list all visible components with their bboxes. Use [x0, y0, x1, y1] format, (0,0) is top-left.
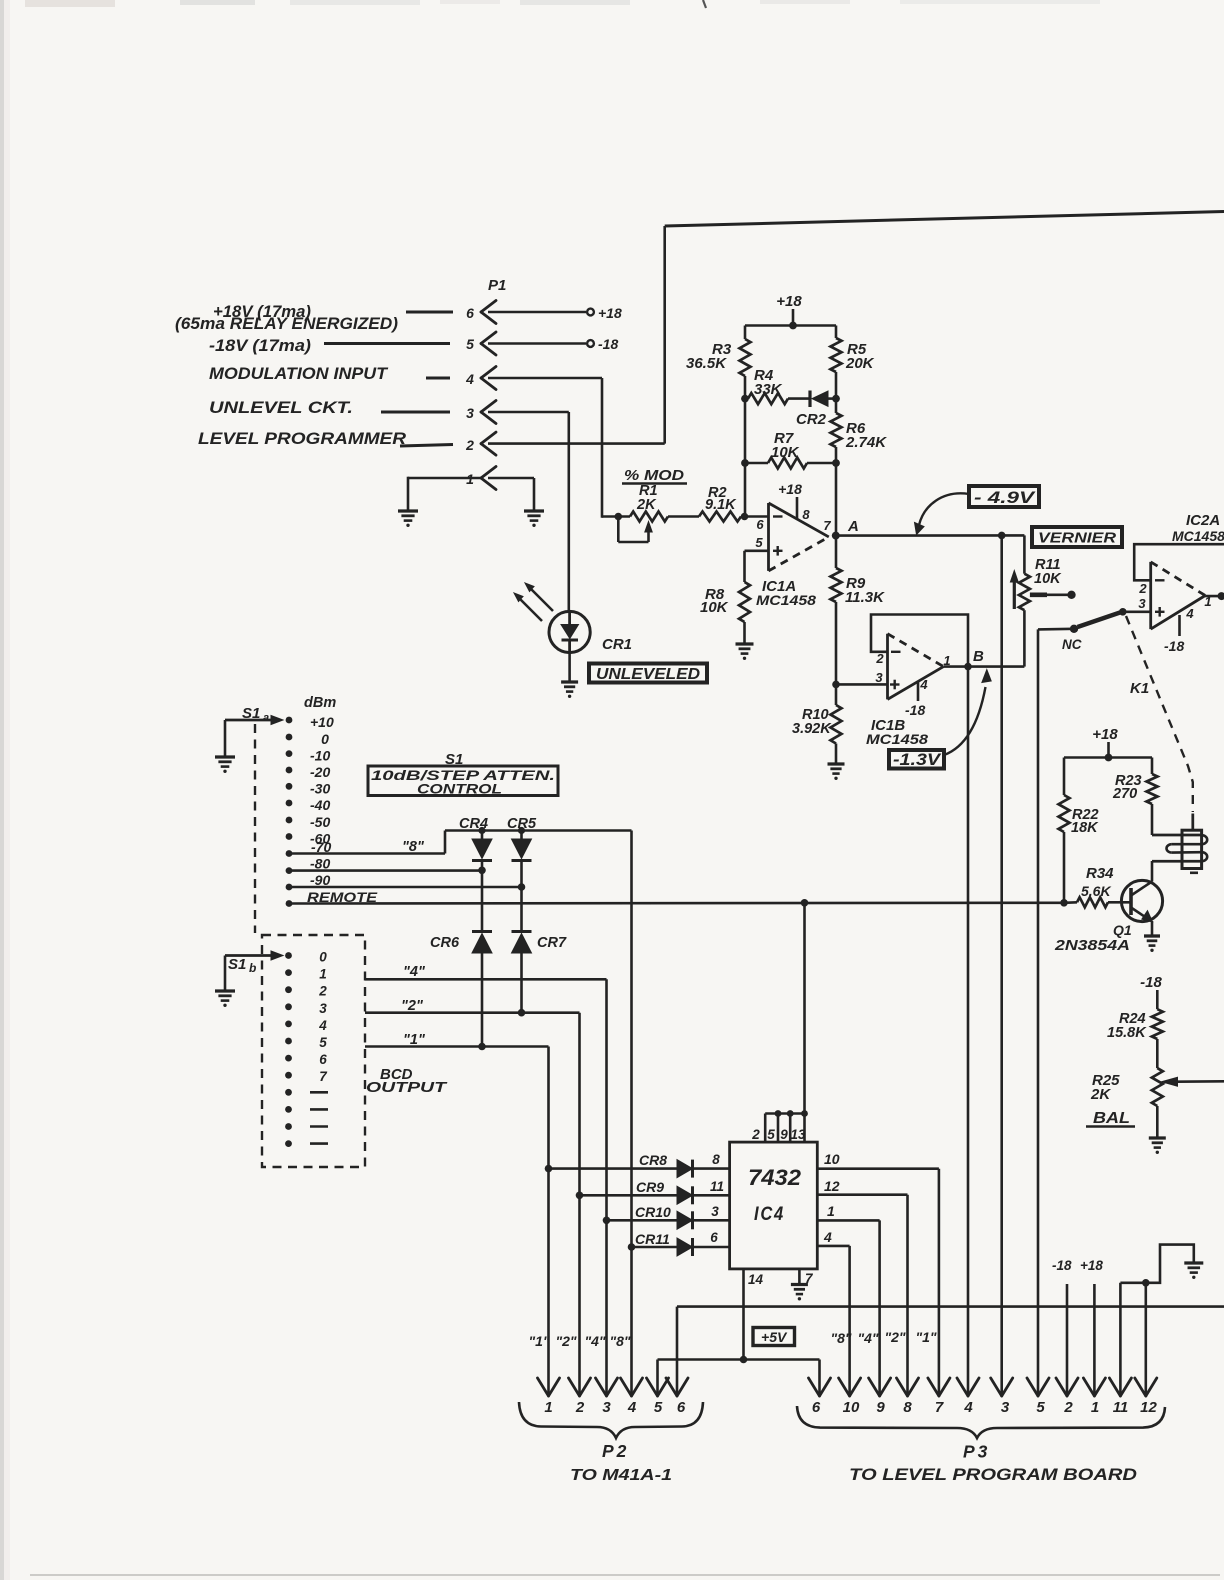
wire BCD "4" line [365, 964, 607, 1395]
wire IC1B feedback loop [871, 615, 968, 667]
svg-text:LEVEL PROGRAMMER: LEVEL PROGRAMMER [198, 430, 406, 448]
svg-text:7: 7 [319, 1069, 328, 1084]
svg-text:1: 1 [319, 967, 327, 982]
svg-text:CR10: CR10 [635, 1204, 671, 1220]
wire top rail to off-page right [665, 212, 1224, 227]
ground at Q1 [1144, 936, 1160, 952]
resistor R8 10K [700, 582, 750, 622]
wire node A to P3-3 [1000, 535, 1003, 1395]
wire -70 "8" line [289, 827, 632, 855]
callout box VERNIER [1032, 527, 1122, 547]
svg-text:15.8K: 15.8K [1107, 1025, 1147, 1041]
svg-text:-18: -18 [598, 336, 618, 352]
svg-text:4: 4 [465, 371, 474, 387]
svg-text:CR4: CR4 [459, 816, 488, 832]
svg-text:5: 5 [654, 1399, 663, 1416]
svg-text:CR1: CR1 [602, 636, 632, 653]
resistor R34 5.6K [1060, 865, 1114, 907]
svg-text:"4": "4" [584, 1333, 605, 1349]
switch S1b contacts BCD [285, 950, 328, 1148]
wire NC to P3-5 [1038, 629, 1074, 1395]
ground at S1b [215, 991, 235, 1007]
wire BCD "2" line [365, 998, 580, 1395]
svg-text:3: 3 [466, 405, 474, 421]
resistor R5 20K [831, 326, 875, 399]
svg-text:"8": "8" [609, 1333, 630, 1349]
svg-text:-10: -10 [310, 748, 330, 764]
relay K1 contact NC [1062, 613, 1120, 653]
svg-text:UNLEVEL CKT.: UNLEVEL CKT. [209, 399, 353, 417]
svg-text:3: 3 [1001, 1399, 1010, 1416]
wire IC2A + input junction [1119, 608, 1151, 616]
svg-text:20K: 20K [845, 355, 875, 372]
svg-text:"2": "2" [884, 1329, 905, 1345]
svg-text:6: 6 [812, 1399, 821, 1416]
svg-text:11: 11 [710, 1179, 724, 1194]
diode CR10 with input [603, 1204, 730, 1229]
wire IC4 pins rail to REMOTE line [801, 899, 809, 1114]
wire REMOTE line [289, 901, 1064, 904]
svg-text:"2": "2" [555, 1333, 576, 1349]
svg-text:MODULATION INPUT: MODULATION INPUT [209, 365, 389, 383]
ground at R25 [1149, 1138, 1166, 1154]
diode CR4 [459, 816, 492, 870]
diode CR6 [430, 932, 492, 1047]
svg-text:-50: -50 [310, 814, 330, 830]
svg-text:2K: 2K [1090, 1086, 1111, 1103]
svg-text:P1: P1 [488, 277, 506, 294]
svg-text:4: 4 [1185, 606, 1194, 621]
svg-text:% MOD: % MOD [624, 467, 684, 484]
ground at CR1 [561, 682, 578, 698]
wire P3-1 stub [1093, 1284, 1096, 1395]
wire BCD "8" vertical [630, 831, 633, 1396]
svg-text:-18: -18 [1052, 1258, 1072, 1273]
resistor R3 36.5K [686, 326, 751, 399]
node A junction [832, 518, 859, 540]
wire P1-4 to R1 [488, 378, 602, 518]
svg-text:10K: 10K [771, 444, 800, 461]
svg-text:IC4: IC4 [754, 1204, 785, 1225]
label % MOD [622, 467, 687, 484]
svg-text:2N3854A: 2N3854A [1054, 937, 1130, 954]
svg-text:+18: +18 [776, 293, 802, 310]
svg-text:+18: +18 [1080, 1258, 1103, 1273]
resistor R4 33K [741, 367, 809, 404]
svg-text:-18: -18 [1164, 638, 1184, 654]
wire CR4 to CR6 [481, 870, 484, 931]
wire relay driver +18 rail [1064, 754, 1152, 762]
wire IC4 output pin 10 to P3-7 [817, 1151, 939, 1395]
svg-text:8: 8 [712, 1152, 720, 1167]
diode CR2 [796, 391, 836, 429]
svg-text:11: 11 [1113, 1399, 1129, 1416]
svg-text:10: 10 [824, 1151, 840, 1167]
svg-text:CONTROL: CONTROL [417, 781, 502, 797]
svg-text:CR11: CR11 [635, 1231, 670, 1247]
op-amp IC1A MC1458 [755, 481, 831, 608]
wire IC2A output [1205, 592, 1224, 600]
relay K1 coil [1152, 814, 1207, 873]
svg-text:5: 5 [319, 1035, 327, 1050]
wire P1-3 to CR1 [488, 412, 569, 612]
svg-text:OUTPUT: OUTPUT [366, 1079, 448, 1096]
resistor R23 270 [1112, 758, 1158, 836]
svg-text:6: 6 [710, 1230, 718, 1245]
svg-text:CR7: CR7 [537, 935, 567, 951]
connector P1 pin 1 (ground) [408, 467, 534, 490]
resistor R9 11.3K [831, 536, 886, 685]
connector P2 brace [519, 1402, 703, 1438]
svg-text:a: a [263, 712, 269, 724]
label S1 10dB/STEP ATTEN. CONTROL box [368, 751, 558, 797]
svg-text:-90: -90 [310, 872, 330, 888]
svg-text:9: 9 [780, 1127, 788, 1142]
svg-text:CR8: CR8 [639, 1152, 667, 1168]
svg-text:+18: +18 [1092, 726, 1118, 743]
wire -80 line [289, 867, 486, 875]
callout box -4.9V with arrow [915, 486, 1040, 535]
-18 supply label (R24) [1140, 974, 1162, 1009]
ground at R10 [828, 764, 845, 780]
svg-text:3: 3 [711, 1204, 719, 1219]
wire P2-6 to off-page right [677, 1307, 1224, 1395]
ground at R8 [736, 644, 754, 660]
switch S1b wiper [225, 951, 283, 990]
wire CR5 to CR7 [520, 887, 523, 932]
labels "8" "4" "2" "1" above P3 [830, 1329, 936, 1346]
switch S1a contacts dBm [286, 714, 378, 907]
labels "1" "2" "4" "8" above P2 [528, 1333, 630, 1349]
wire R6/R7 right leg to node A [835, 463, 838, 536]
svg-text:18K: 18K [1071, 820, 1099, 836]
diode CR7 [512, 932, 567, 1013]
potentiometer R1 2K [602, 483, 668, 542]
wire pin1 right leg [533, 478, 536, 511]
ground at P1 pin 1 right [524, 511, 544, 527]
connector P3 pin numbers [812, 1399, 1158, 1416]
svg-text:A: A [847, 518, 859, 535]
wire IC1B + input [832, 681, 887, 689]
svg-text:3: 3 [602, 1399, 611, 1416]
connector P1 pin 2 (LEVEL PROGRAMMER) [198, 430, 496, 455]
connector P2 pin numbers [544, 1399, 686, 1416]
svg-text:12: 12 [824, 1178, 840, 1194]
svg-text:-80: -80 [310, 856, 330, 872]
svg-text:9: 9 [876, 1399, 885, 1416]
label BCD OUTPUT [366, 1066, 448, 1096]
svg-text:+10: +10 [310, 714, 334, 730]
svg-text:MC1458: MC1458 [756, 592, 816, 608]
ground at IC4 pin 7 [791, 1285, 808, 1301]
resistor R7 10K [741, 430, 840, 469]
svg-text:2: 2 [575, 1399, 585, 1416]
wire R8 to ground [743, 622, 746, 643]
svg-text:-1.3V: -1.3V [893, 751, 942, 769]
svg-text:-40: -40 [310, 797, 330, 813]
potentiometer R25 2K BAL [1090, 1039, 1224, 1137]
svg-text:10K: 10K [700, 599, 729, 616]
svg-text:NC: NC [1062, 637, 1082, 652]
svg-text:"1": "1" [528, 1333, 549, 1349]
svg-text:2: 2 [875, 651, 884, 666]
potentiometer R11 10K vernier [1010, 535, 1075, 666]
svg-text:P3: P3 [963, 1442, 990, 1462]
wire BCD "1" line [365, 1032, 549, 1395]
resistor R6 2.74K [831, 395, 888, 463]
svg-text:IC2A: IC2A [1186, 512, 1220, 529]
connector P1 pin 6 (+18V input) [175, 301, 622, 334]
label dBm [304, 695, 336, 711]
wire P3-2 stub [1066, 1284, 1069, 1395]
+18 supply label (R3/R5 rail) [776, 293, 802, 326]
label -18 +18 (P3 supplies) [1052, 1258, 1103, 1273]
svg-text:Q1: Q1 [1113, 922, 1132, 938]
connector P2 arrows [538, 1378, 689, 1396]
wire +5V rail [658, 1356, 820, 1395]
diode CR5 [507, 816, 537, 887]
svg-text:7: 7 [935, 1399, 944, 1416]
switch S1a wiper [225, 705, 283, 756]
wire P3-11 vertical [1119, 1283, 1122, 1395]
svg-text:6: 6 [677, 1399, 686, 1416]
svg-text:6: 6 [319, 1052, 327, 1067]
wire -90 line [289, 883, 525, 891]
svg-text:3: 3 [1138, 596, 1146, 611]
label CR1 [602, 636, 632, 653]
diode CR9 with input [576, 1179, 730, 1204]
resistor R10 3.92K [792, 684, 842, 743]
svg-text:1: 1 [1091, 1399, 1099, 1416]
svg-text:9.1K: 9.1K [705, 497, 737, 513]
svg-text:1: 1 [544, 1399, 552, 1416]
svg-text:4: 4 [823, 1229, 832, 1245]
svg-text:CR9: CR9 [636, 1179, 664, 1195]
svg-text:0: 0 [321, 731, 329, 747]
svg-text:S1: S1 [228, 956, 246, 973]
svg-text:5.6K: 5.6K [1081, 883, 1111, 899]
svg-text:+5V: +5V [761, 1329, 788, 1345]
diode CR11 with input [628, 1230, 730, 1256]
svg-text:UNLEVELED: UNLEVELED [596, 666, 700, 683]
svg-text:10: 10 [843, 1399, 860, 1416]
label TO LEVEL PROGRAM BOARD [849, 1466, 1137, 1484]
svg-text:-18: -18 [905, 702, 925, 718]
svg-text:1: 1 [466, 471, 474, 487]
connector P1 pin 4 (MODULATION INPUT) [209, 365, 496, 390]
svg-text:0: 0 [319, 950, 327, 965]
resistor R24 15.8K [1107, 1009, 1163, 1041]
wire Q1 emitter to ground [1151, 921, 1154, 935]
callout box UNLEVELED [589, 664, 707, 684]
svg-text:CR5: CR5 [507, 816, 537, 832]
svg-text:2: 2 [1138, 581, 1147, 596]
wire node A to R11 [836, 532, 1024, 540]
ground at S1a [215, 757, 235, 773]
wire IC1A pin5 to R8 [745, 551, 769, 582]
svg-text:MC1458: MC1458 [1172, 528, 1224, 544]
svg-text:5: 5 [1036, 1399, 1045, 1416]
wire P1-2 to top rail [488, 226, 665, 444]
op-amp IC2A MC1458 [1138, 512, 1224, 654]
svg-text:"1": "1" [915, 1329, 936, 1345]
transistor Q1 2N3854A [1054, 861, 1163, 954]
connector P3 brace [797, 1406, 1165, 1438]
svg-text:4: 4 [627, 1399, 637, 1416]
resistor R22 18K [1059, 758, 1100, 903]
svg-text:"8": "8" [402, 839, 425, 855]
svg-text:12: 12 [1140, 1399, 1157, 1416]
svg-text:2: 2 [1063, 1399, 1073, 1416]
svg-text:"8": "8" [830, 1330, 851, 1346]
wire P3-12 vertical [1145, 1283, 1148, 1395]
svg-text:-30: -30 [310, 780, 330, 796]
label BAL [1086, 1110, 1135, 1127]
wire IC4 output pin 12 to P3-8 [817, 1178, 907, 1395]
svg-text:8: 8 [903, 1399, 912, 1416]
svg-text:14: 14 [748, 1272, 764, 1287]
svg-text:10K: 10K [1034, 571, 1062, 587]
svg-text:P2: P2 [602, 1441, 629, 1461]
svg-text:-18V (17ma): -18V (17ma) [209, 337, 312, 355]
wire node B to P3-4 [967, 667, 970, 1395]
wire pin1 left leg [407, 477, 410, 511]
svg-text:5: 5 [767, 1127, 775, 1142]
svg-text:CR2: CR2 [796, 411, 827, 428]
node B wire [944, 648, 1025, 670]
svg-text:5: 5 [755, 535, 763, 550]
svg-text:VERNIER: VERNIER [1038, 530, 1116, 547]
svg-text:4: 4 [318, 1018, 327, 1033]
svg-text:K1: K1 [1130, 680, 1149, 697]
svg-text:+18: +18 [778, 481, 802, 497]
svg-text:3: 3 [875, 670, 883, 685]
label P3 [963, 1442, 990, 1462]
callout box -1.3V with arrow [889, 670, 991, 770]
svg-text:4: 4 [919, 677, 928, 692]
svg-text:CR6: CR6 [430, 935, 460, 951]
svg-text:R34: R34 [1086, 865, 1114, 882]
wire CR1 cathode [568, 653, 571, 681]
connector P3 arrows [809, 1378, 1157, 1396]
svg-text:2.74K: 2.74K [845, 434, 887, 451]
svg-text:(65ma RELAY ENERGIZED): (65ma RELAY ENERGIZED) [175, 315, 399, 333]
svg-text:5: 5 [466, 336, 474, 352]
switch S1b dashed box [262, 935, 365, 1167]
diode CR8 with input [545, 1152, 730, 1178]
+18 supply label (relay driver) [1092, 726, 1118, 758]
svg-text:2: 2 [318, 984, 327, 999]
wire IC4 output pin 1 to P3-9 [817, 1203, 879, 1395]
svg-text:36.5K: 36.5K [686, 355, 727, 372]
svg-text:33K: 33K [754, 381, 783, 398]
svg-text:6: 6 [466, 305, 474, 321]
wire R3/R7 left leg [744, 399, 747, 517]
ground symbol at P3 [1184, 1263, 1203, 1279]
LED CR1 [514, 583, 590, 653]
svg-text:270: 270 [1112, 786, 1137, 802]
wire +18 rail [745, 322, 836, 330]
label P2 [602, 1441, 629, 1461]
svg-text:-18: -18 [1140, 974, 1162, 991]
svg-text:BAL: BAL [1093, 1110, 1130, 1127]
op-amp IC1B MC1458 [866, 634, 951, 747]
resistor R2 9.1K [668, 485, 769, 522]
ground to P3-11/12 [1120, 1245, 1193, 1287]
wire IC4 pin 14 to +5V [744, 1269, 764, 1360]
callout box +5V [753, 1328, 795, 1346]
svg-text:dBm: dBm [304, 695, 336, 711]
svg-text:-20: -20 [310, 764, 330, 780]
IC4 pin 7 to ground [799, 1269, 814, 1286]
IC4 pins 2,5,9,13 to REMOTE [751, 1110, 808, 1142]
wire IC2A feedback [1134, 544, 1224, 580]
svg-text:7: 7 [823, 518, 831, 533]
label TO M41A-1 [570, 1467, 672, 1484]
svg-text:2: 2 [465, 437, 474, 453]
svg-text:1: 1 [827, 1203, 835, 1219]
wire R10 to ground [835, 744, 838, 764]
svg-text:13: 13 [790, 1127, 806, 1142]
connector P1 pin 3 (UNLEVEL CKT) [209, 399, 496, 424]
svg-text:4: 4 [963, 1399, 973, 1416]
connector P1 label [488, 277, 506, 294]
svg-text:3.92K: 3.92K [792, 721, 832, 737]
svg-text:"4": "4" [403, 964, 426, 980]
svg-text:b: b [249, 961, 256, 975]
svg-text:- 4.9V: - 4.9V [974, 488, 1036, 507]
svg-text:"4": "4" [857, 1330, 878, 1346]
svg-text:8: 8 [802, 507, 810, 522]
svg-text:TO LEVEL PROGRAM BOARD: TO LEVEL PROGRAM BOARD [849, 1466, 1137, 1484]
svg-text:7432: 7432 [748, 1165, 802, 1190]
wire IC4 output pin 4 to P3-10 [817, 1229, 849, 1395]
svg-text:3: 3 [319, 1001, 327, 1016]
ground at P1 pin 1 left [398, 511, 418, 527]
svg-text:MC1458: MC1458 [866, 731, 928, 747]
svg-text:TO M41A-1: TO M41A-1 [570, 1467, 672, 1484]
svg-text:6: 6 [756, 517, 764, 532]
svg-text:B: B [973, 648, 984, 665]
svg-text:2: 2 [751, 1127, 760, 1142]
svg-text:+18: +18 [598, 305, 622, 321]
svg-text:11.3K: 11.3K [845, 589, 885, 606]
connector P1 pin 5 (-18V input) [209, 332, 618, 355]
relay K1 actuator dashed line [1126, 616, 1193, 812]
S1a wiper dashed line [254, 724, 256, 933]
IC IC4 7432 body [730, 1142, 818, 1269]
